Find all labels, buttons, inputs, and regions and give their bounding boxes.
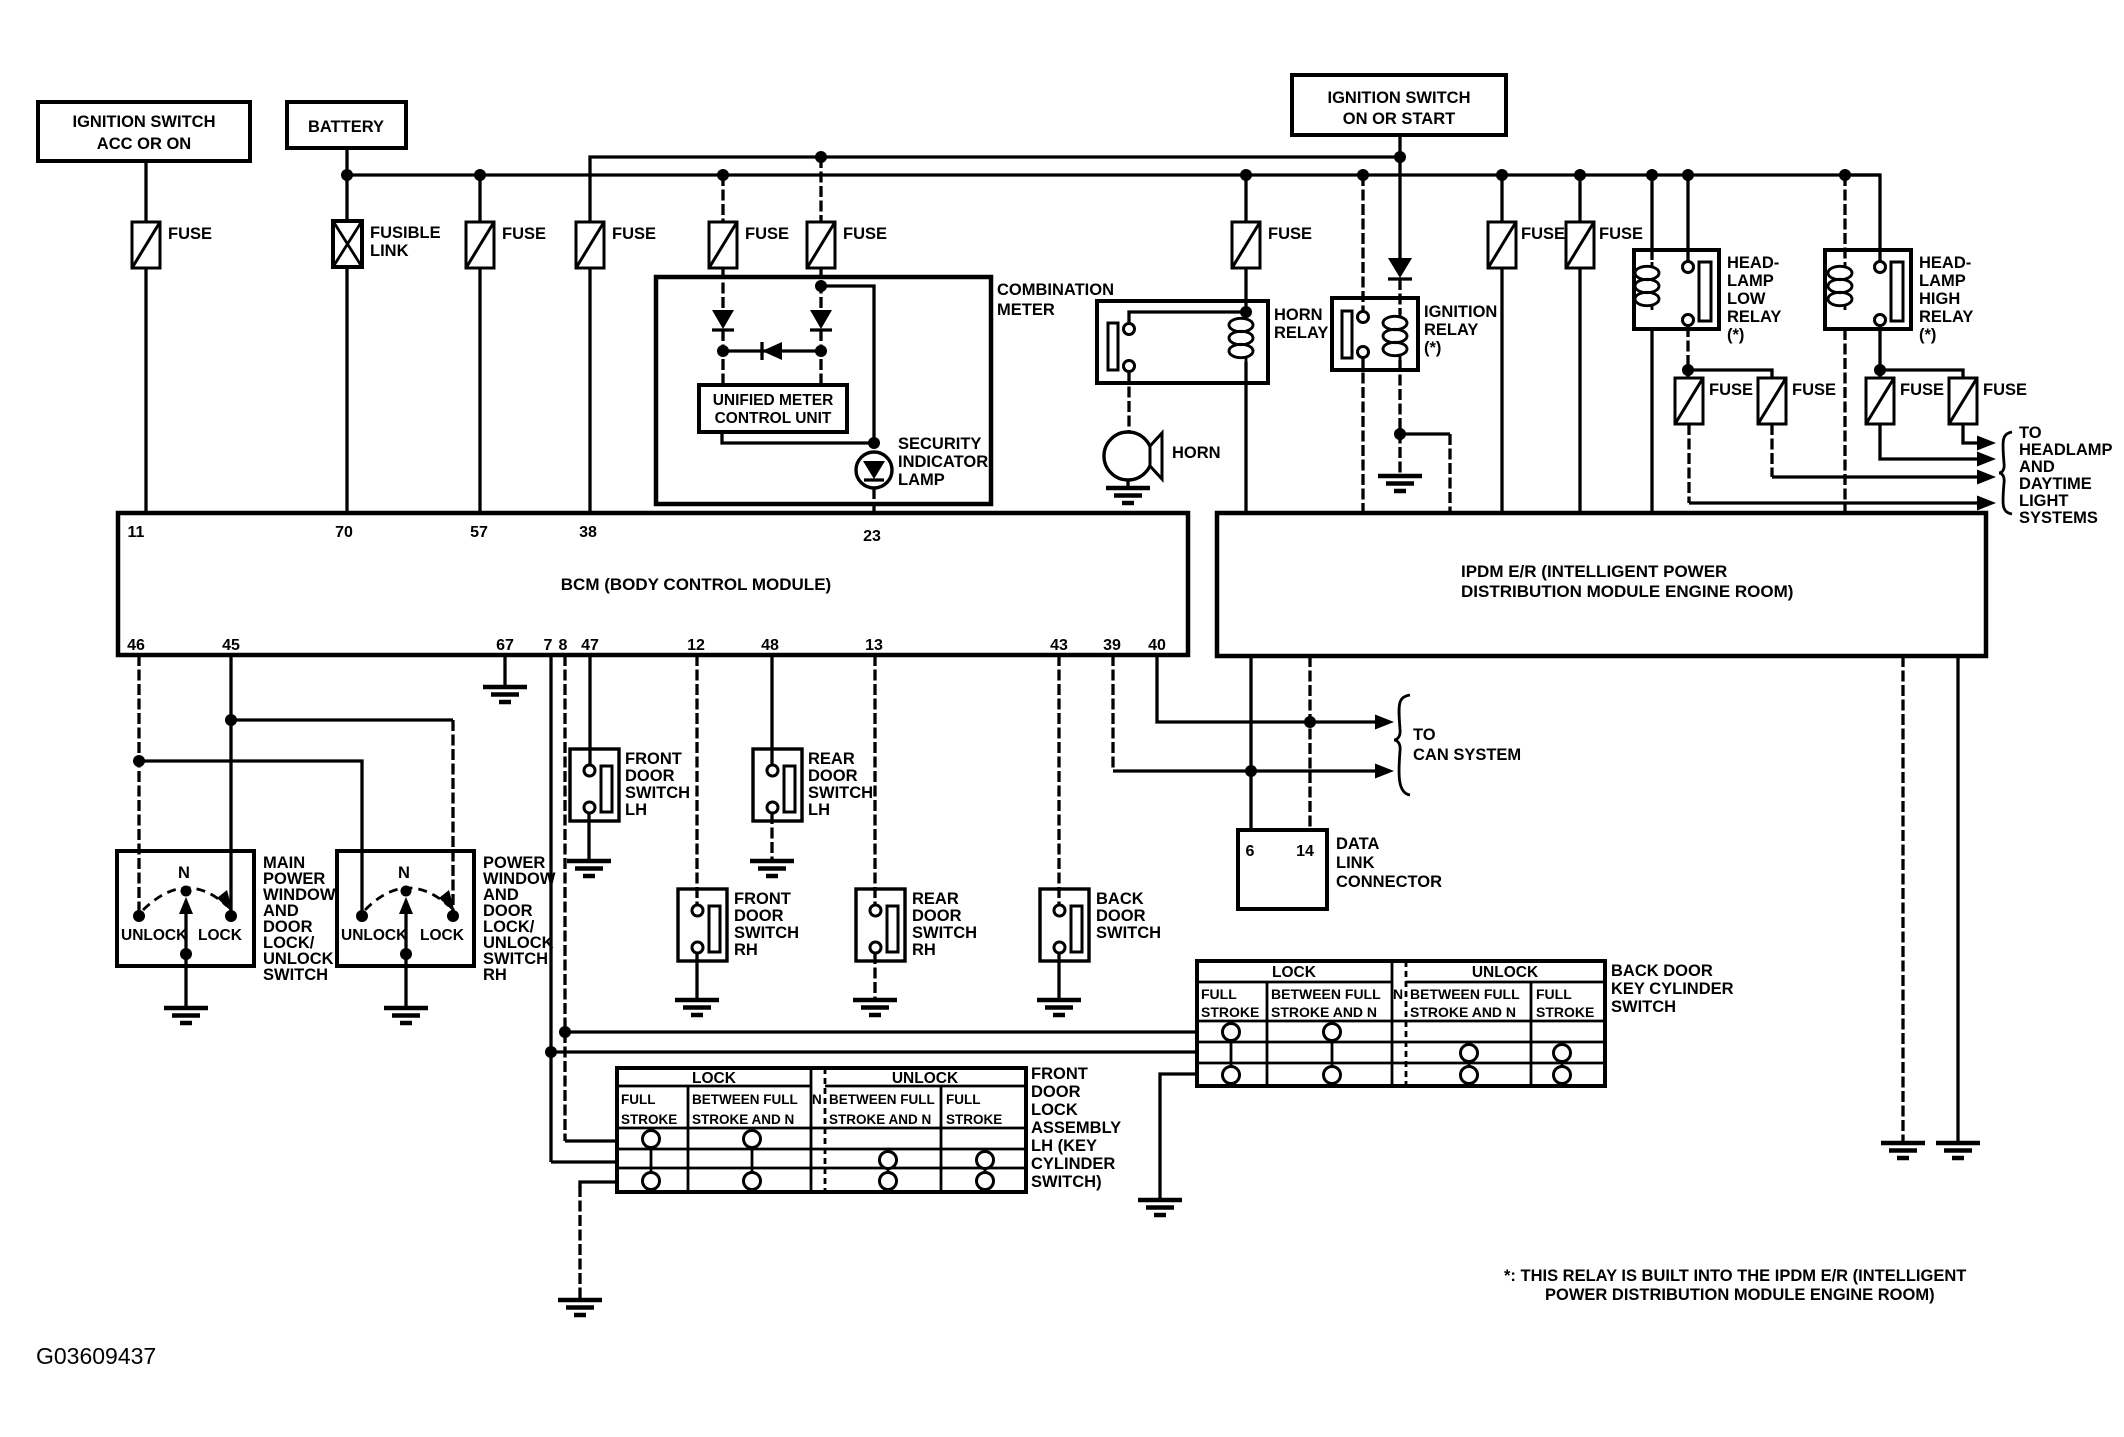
svg-text:G03609437: G03609437 <box>36 1343 156 1369</box>
svg-text:13: 13 <box>865 637 883 654</box>
wire IPDM to DLC pin 14 <box>1308 656 1311 830</box>
node ignition relay ground branch <box>1394 428 1406 440</box>
svg-text:COMBINATION: COMBINATION <box>997 281 1114 299</box>
svg-text:TO: TO <box>1413 726 1436 744</box>
svg-text:SWITCH: SWITCH <box>734 924 799 942</box>
wire branch to IPDM <box>1400 432 1450 435</box>
svg-text:IPDM E/R (INTELLIGENT POWER: IPDM E/R (INTELLIGENT POWER <box>1461 562 1727 581</box>
ground switch S2 <box>384 954 428 1023</box>
svg-text:LOCK: LOCK <box>1031 1101 1078 1119</box>
ground front door switch RH <box>675 953 719 1015</box>
svg-text:CONTROL UNIT: CONTROL UNIT <box>715 410 832 427</box>
front door switch LH <box>570 749 690 821</box>
svg-text:N: N <box>398 864 410 882</box>
fuse FC <box>1866 378 1944 424</box>
svg-text:(*): (*) <box>1727 326 1744 344</box>
svg-text:RH: RH <box>912 941 936 959</box>
wire fuse F3 to BCM pin 38 <box>588 268 591 513</box>
wire lamp to BCM pin 23 <box>872 488 875 513</box>
svg-text:LH: LH <box>808 801 830 819</box>
svg-text:RH: RH <box>483 966 507 984</box>
rear door switch RH <box>856 889 977 961</box>
svg-text:LIGHT: LIGHT <box>2019 492 2069 510</box>
svg-text:47: 47 <box>581 637 599 654</box>
svg-text:REAR: REAR <box>912 890 959 908</box>
svg-text:UNLOCK: UNLOCK <box>341 927 408 944</box>
wire front table row C to ground <box>558 1182 617 1315</box>
svg-text:FUSE: FUSE <box>1599 225 1643 243</box>
svg-text:LINK: LINK <box>370 242 409 260</box>
ground ignition relay <box>1378 476 1422 491</box>
svg-text:DOOR: DOOR <box>625 767 675 785</box>
svg-text:DAYTIME: DAYTIME <box>2019 475 2092 493</box>
svg-text:FRONT: FRONT <box>1031 1065 1088 1083</box>
wire to security lamp column <box>821 286 874 443</box>
svg-text:SWITCH: SWITCH <box>808 784 873 802</box>
svg-text:SYSTEMS: SYSTEMS <box>2019 509 2098 527</box>
headlamp high relay K4 <box>1825 250 1973 344</box>
wire pin 39 to CAN arrow <box>1111 655 1114 771</box>
svg-text:STROKE AND N: STROKE AND N <box>1271 1004 1377 1020</box>
wire branch to switch2 lock <box>231 718 453 721</box>
ignition switch ACC box <box>38 102 250 161</box>
wire bus to low relay contact <box>1686 175 1689 261</box>
wire D1 to node <box>721 330 724 385</box>
fuse F6 horn relay feed <box>1232 175 1312 268</box>
security indicator lamp <box>856 435 988 489</box>
back door switch <box>1040 889 1161 961</box>
svg-text:STROKE: STROKE <box>1536 1004 1594 1020</box>
svg-text:RELAY: RELAY <box>1727 308 1781 326</box>
svg-text:LAMP: LAMP <box>1919 272 1966 290</box>
label switch S1 <box>263 854 336 984</box>
wire cross diode D3 <box>723 342 821 360</box>
headlamp low relay K3 <box>1634 250 1781 344</box>
wire horn relay coil to IPDM <box>1244 362 1247 513</box>
node battery bus junctions <box>341 169 1851 181</box>
node high relay fuse split <box>1874 364 1886 376</box>
wire ignition relay contact to IPDM <box>1361 358 1364 513</box>
node CAN junction 6 <box>1245 765 1257 777</box>
wire pin7 branch to back door table row B <box>551 1050 1197 1053</box>
svg-text:FUSE: FUSE <box>1521 225 1565 243</box>
wire IPDM right ground 1 <box>1881 656 1925 1158</box>
svg-text:LOW: LOW <box>1727 290 1766 308</box>
svg-text:LH: LH <box>625 801 647 819</box>
wire low relay contact to fuses <box>1686 326 1689 378</box>
svg-text:67: 67 <box>496 637 514 654</box>
svg-text:DOOR: DOOR <box>734 907 784 925</box>
wire pin 45 to lock switches <box>229 655 232 916</box>
node headlamp systems brace and label <box>1999 424 2113 527</box>
svg-text:RH: RH <box>734 941 758 959</box>
wire pin 48 to rear door switch LH <box>770 655 773 770</box>
wire D2 to node <box>819 330 822 385</box>
svg-text:7: 7 <box>544 637 553 654</box>
wire ignition ACC to fuse <box>144 161 147 224</box>
node pin7 branch <box>545 1046 557 1058</box>
svg-text:CAN SYSTEM: CAN SYSTEM <box>1413 746 1521 764</box>
svg-text:METER: METER <box>997 301 1055 319</box>
fuse F1 <box>132 222 212 268</box>
front door lock assembly key cylinder switch table <box>617 1068 1026 1192</box>
svg-text:*: THIS RELAY IS BUILT INTO T: *: THIS RELAY IS BUILT INTO THE IPDM E/R… <box>1504 1267 1966 1285</box>
node lamp feed <box>868 437 880 449</box>
svg-text:12: 12 <box>687 637 705 654</box>
wire ignition ON down <box>1398 135 1401 258</box>
svg-text:IGNITION SWITCH: IGNITION SWITCH <box>73 113 216 131</box>
node pin46 branch <box>133 755 145 767</box>
svg-text:FUSE: FUSE <box>1900 381 1944 399</box>
wire fuse F8 to IPDM <box>1578 268 1581 513</box>
svg-text:BETWEEN FULL: BETWEEN FULL <box>829 1092 935 1107</box>
svg-text:IGNITION SWITCH: IGNITION SWITCH <box>1328 89 1471 107</box>
svg-text:FUSE: FUSE <box>843 225 887 243</box>
ground back door switch <box>1037 953 1081 1015</box>
wire fusible link to BCM pin 70 <box>345 267 348 513</box>
svg-text:BATTERY: BATTERY <box>308 118 384 136</box>
arrow CAN low <box>1375 764 1394 779</box>
svg-text:8: 8 <box>559 637 568 654</box>
power window switch S2 <box>337 851 474 966</box>
diode D2 <box>810 310 832 330</box>
svg-text:BACK: BACK <box>1096 890 1144 908</box>
svg-text:SWITCH: SWITCH <box>625 784 690 802</box>
wire pin8 elbow to front table row A <box>565 1139 617 1142</box>
wire pin 12 to front door switch RH <box>695 655 698 910</box>
svg-text:CONNECTOR: CONNECTOR <box>1336 873 1442 891</box>
wire D4 to ignition relay coil <box>1398 279 1401 314</box>
svg-text:FULL: FULL <box>1536 986 1572 1002</box>
label front door lock assembly <box>1031 1065 1121 1191</box>
wire pin8 branch to back door table row A <box>565 1030 1197 1033</box>
svg-text:SWITCH: SWITCH <box>912 924 977 942</box>
unified meter control unit box <box>699 385 847 432</box>
svg-text:38: 38 <box>579 524 597 541</box>
label back door key cylinder switch <box>1611 962 1734 1016</box>
wire pin 8 down <box>563 655 566 1141</box>
wire bus end to high relay contact <box>1845 175 1880 261</box>
svg-text:FUSIBLE: FUSIBLE <box>370 224 441 242</box>
svg-text:DOOR: DOOR <box>808 767 858 785</box>
wire high relay coil to IPDM <box>1843 329 1846 513</box>
svg-text:UNLOCK: UNLOCK <box>121 927 188 944</box>
wire fuse F5 into meter <box>819 268 822 310</box>
svg-text:DOOR: DOOR <box>1031 1083 1081 1101</box>
wire fuse FA to headlamp arrow 4 <box>1689 424 1996 511</box>
node y157 junctions <box>815 151 1406 163</box>
ignition bus wire y157 <box>590 157 1400 222</box>
svg-text:FUSE: FUSE <box>745 225 789 243</box>
wire IPDM to DLC pin 6 <box>1249 656 1252 830</box>
wire pin 40 to CAN arrow <box>1157 655 1377 722</box>
note relay built into IPDM <box>1504 1267 1966 1304</box>
svg-text:ACC OR ON: ACC OR ON <box>97 135 191 153</box>
svg-text:(*): (*) <box>1919 326 1936 344</box>
svg-text:DOOR: DOOR <box>1096 907 1146 925</box>
svg-text:45: 45 <box>222 637 240 654</box>
svg-text:SECURITY: SECURITY <box>898 435 981 453</box>
svg-text:LOCK: LOCK <box>198 927 243 944</box>
diode D4 <box>1388 258 1412 279</box>
svg-text:AND: AND <box>2019 458 2055 476</box>
svg-text:N: N <box>1393 986 1403 1002</box>
diode D1 <box>712 310 734 330</box>
wire pin 7 down <box>549 655 552 1162</box>
svg-text:RELAY: RELAY <box>1424 321 1478 339</box>
wire bus to low relay coil <box>1650 175 1653 260</box>
node low relay fuse split <box>1682 364 1694 376</box>
wire fuse F4 into meter <box>721 268 724 310</box>
node meter right top <box>815 280 827 292</box>
wire pin7 elbow to front table row B <box>551 1160 617 1163</box>
fuse FB <box>1758 378 1836 424</box>
svg-text:HEAD-: HEAD- <box>1919 254 1971 272</box>
wire pin 43 to back door switch <box>1057 655 1060 910</box>
svg-text:LINK: LINK <box>1336 854 1375 872</box>
wire low relay coil to IPDM <box>1650 329 1653 513</box>
svg-text:STROKE AND N: STROKE AND N <box>692 1112 794 1127</box>
fuse F4 <box>709 175 789 268</box>
svg-text:ON OR START: ON OR START <box>1343 110 1455 128</box>
svg-text:FUSE: FUSE <box>1709 381 1753 399</box>
svg-text:46: 46 <box>127 637 145 654</box>
arrow CAN high <box>1375 715 1394 730</box>
svg-text:FULL: FULL <box>621 1092 656 1107</box>
svg-text:STROKE: STROKE <box>946 1112 1002 1127</box>
svg-text:STROKE AND N: STROKE AND N <box>1410 1004 1516 1020</box>
svg-text:FUSE: FUSE <box>612 225 656 243</box>
svg-text:RELAY: RELAY <box>1919 308 1973 326</box>
wire fuse FD to headlamp arrow 1 <box>1963 424 1996 451</box>
wire branch to fuse FB <box>1688 370 1772 378</box>
wire battery down <box>345 148 348 175</box>
svg-text:40: 40 <box>1148 637 1166 654</box>
svg-text:LOCK: LOCK <box>1272 964 1317 981</box>
ground switch S1 <box>164 954 208 1023</box>
svg-text:43: 43 <box>1050 637 1068 654</box>
svg-text:48: 48 <box>761 637 779 654</box>
svg-text:IGNITION: IGNITION <box>1424 303 1497 321</box>
wire bus to high relay coil <box>1843 175 1846 260</box>
svg-text:UNIFIED METER: UNIFIED METER <box>713 392 834 409</box>
svg-text:LOCK: LOCK <box>420 927 465 944</box>
IPDM E/R box <box>1217 513 1986 656</box>
svg-text:DOOR: DOOR <box>912 907 962 925</box>
wire fuse F6 to horn relay <box>1244 268 1247 312</box>
fuse FA <box>1675 378 1753 424</box>
svg-text:RELAY: RELAY <box>1274 324 1328 342</box>
svg-text:FULL: FULL <box>1201 986 1237 1002</box>
wire fuse FC to headlamp arrow 2 <box>1880 424 1996 467</box>
main power window switch S1 <box>117 851 254 966</box>
wire high relay contact to fuses <box>1878 326 1881 378</box>
node pin8 branch <box>559 1026 571 1038</box>
ground front door switch LH <box>567 813 611 876</box>
battery box <box>287 102 406 148</box>
wire UMCU out to lamp node <box>722 432 874 443</box>
svg-text:SWITCH: SWITCH <box>1096 924 1161 942</box>
wire fuse F1 to BCM pin 11 <box>144 268 147 513</box>
back door key cylinder switch table <box>1197 961 1605 1086</box>
svg-text:DISTRIBUTION MODULE ENGINE ROO: DISTRIBUTION MODULE ENGINE ROOM) <box>1461 582 1793 601</box>
svg-text:ASSEMBLY: ASSEMBLY <box>1031 1119 1121 1137</box>
wire branch to fuse FD <box>1880 370 1963 378</box>
svg-text:TO: TO <box>2019 424 2042 442</box>
svg-text:BCM (BODY CONTROL MODULE): BCM (BODY CONTROL MODULE) <box>561 575 831 594</box>
svg-text:UNLOCK: UNLOCK <box>892 1070 959 1087</box>
svg-text:LOCK: LOCK <box>692 1070 737 1087</box>
wire pin 47 to front door switch LH <box>588 655 591 770</box>
wire IPDM right ground 2 <box>1936 656 1980 1158</box>
wire fuse F7 to IPDM <box>1500 268 1503 513</box>
svg-text:HIGH: HIGH <box>1919 290 1960 308</box>
ground rear door switch RH <box>853 953 897 1015</box>
horn relay K1 <box>1097 301 1328 383</box>
combination meter box <box>656 277 1114 504</box>
svg-text:STROKE AND N: STROKE AND N <box>829 1112 931 1127</box>
svg-text:LAMP: LAMP <box>898 471 945 489</box>
wire pin 46 to unlock switches <box>137 655 140 916</box>
node CAN junction 14 <box>1304 716 1316 728</box>
svg-text:57: 57 <box>470 524 488 541</box>
node pin45 branch <box>225 714 237 726</box>
rear door switch LH <box>753 749 873 821</box>
wire branch to switch2 unlock <box>139 761 362 916</box>
fuse F8 <box>1566 175 1643 268</box>
horn <box>1104 432 1221 480</box>
fuse FD <box>1949 378 2027 424</box>
svg-text:LAMP: LAMP <box>1727 272 1774 290</box>
ignition switch ON/START box <box>1292 75 1506 135</box>
svg-text:FRONT: FRONT <box>734 890 791 908</box>
wire fuse F2 to BCM pin 57 <box>478 268 481 513</box>
svg-text:POWER DISTRIBUTION MODULE ENGI: POWER DISTRIBUTION MODULE ENGINE ROOM) <box>1545 1286 1935 1304</box>
wire pin 13 to rear door switch RH <box>873 655 876 910</box>
svg-text:REAR: REAR <box>808 750 855 768</box>
svg-text:23: 23 <box>863 528 881 545</box>
svg-text:(*): (*) <box>1424 339 1441 357</box>
front door switch RH <box>678 889 799 961</box>
svg-text:UNLOCK: UNLOCK <box>1472 964 1539 981</box>
fuse F3 <box>576 222 656 268</box>
svg-text:HEADLAMP: HEADLAMP <box>2019 441 2113 459</box>
svg-text:SWITCH: SWITCH <box>263 966 328 984</box>
node CAN brace and label <box>1394 695 1521 795</box>
svg-text:FUSE: FUSE <box>1983 381 2027 399</box>
svg-text:14: 14 <box>1296 843 1314 860</box>
fusible link FL <box>333 175 441 267</box>
svg-text:BETWEEN FULL: BETWEEN FULL <box>692 1092 798 1107</box>
fuse F2 <box>466 175 546 268</box>
svg-text:11: 11 <box>128 524 145 541</box>
svg-text:FUSE: FUSE <box>1268 225 1312 243</box>
svg-text:SWITCH: SWITCH <box>1611 998 1676 1016</box>
svg-text:SWITCH): SWITCH) <box>1031 1173 1102 1191</box>
svg-text:N: N <box>812 1092 822 1107</box>
svg-text:FUSE: FUSE <box>1792 381 1836 399</box>
label switch S2 <box>483 854 556 984</box>
svg-text:N: N <box>178 864 190 882</box>
svg-text:HEAD-: HEAD- <box>1727 254 1779 272</box>
ground horn <box>1106 480 1150 503</box>
svg-text:HORN: HORN <box>1172 444 1221 462</box>
svg-text:LH (KEY: LH (KEY <box>1031 1137 1097 1155</box>
fuse F5 <box>807 157 887 268</box>
node meter right <box>815 345 827 357</box>
svg-text:BETWEEN FULL: BETWEEN FULL <box>1410 986 1520 1002</box>
ground rear door switch LH <box>750 813 794 876</box>
svg-text:KEY CYLINDER: KEY CYLINDER <box>1611 980 1734 998</box>
battery bus wire y175 <box>347 173 1880 176</box>
svg-text:STROKE: STROKE <box>621 1112 677 1127</box>
fuse F7 <box>1488 175 1565 268</box>
svg-text:BACK DOOR: BACK DOOR <box>1611 962 1713 980</box>
wire back table row C to ground <box>1138 1074 1197 1215</box>
data link connector <box>1238 830 1442 909</box>
svg-text:6: 6 <box>1246 843 1255 860</box>
svg-text:DATA: DATA <box>1336 835 1379 853</box>
svg-text:INDICATOR: INDICATOR <box>898 453 988 471</box>
ignition relay K2 <box>1332 298 1497 370</box>
node meter left <box>717 345 729 357</box>
wire fuse FB to headlamp arrow 3 <box>1772 424 1996 485</box>
svg-text:BETWEEN FULL: BETWEEN FULL <box>1271 986 1381 1002</box>
svg-text:HORN: HORN <box>1274 306 1323 324</box>
wire ignition relay coil to ground <box>1398 360 1401 474</box>
wire bus to ignition relay contact <box>1361 175 1364 311</box>
BCM body control module box <box>118 513 1188 655</box>
svg-text:FRONT: FRONT <box>625 750 682 768</box>
wire horn relay contact to horn <box>1127 372 1130 432</box>
svg-text:70: 70 <box>335 524 353 541</box>
svg-text:FUSE: FUSE <box>502 225 546 243</box>
svg-text:CYLINDER: CYLINDER <box>1031 1155 1115 1173</box>
ground pin 67 <box>483 655 527 702</box>
svg-text:STROKE: STROKE <box>1201 1004 1259 1020</box>
svg-text:FULL: FULL <box>946 1092 981 1107</box>
svg-text:39: 39 <box>1103 637 1121 654</box>
svg-text:FUSE: FUSE <box>168 225 212 243</box>
